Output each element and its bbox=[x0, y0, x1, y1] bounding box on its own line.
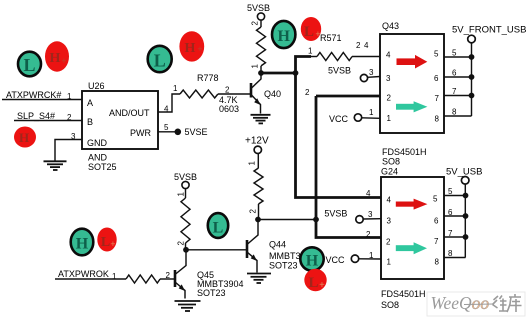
watermark box bbox=[427, 292, 525, 316]
wire Q43 pin 8 bbox=[444, 115, 472, 117]
wire Q24 pin 8 bbox=[444, 257, 466, 259]
svg-text:FDS4501H: FDS4501H bbox=[382, 147, 427, 157]
svg-text:L: L bbox=[101, 235, 110, 250]
svg-text:SO8: SO8 bbox=[381, 300, 399, 310]
svg-text:L: L bbox=[308, 275, 318, 291]
wire vertical bus down to Q24 pin 4 bbox=[296, 73, 382, 198]
svg-text:H: H bbox=[76, 236, 89, 253]
ground (U26 pin 3) bbox=[44, 161, 67, 170]
terminal 5VSB (Q43 pin 3) bbox=[360, 74, 367, 81]
svg-text:5: 5 bbox=[448, 187, 453, 196]
svg-text:0603: 0603 bbox=[219, 104, 239, 114]
svg-text:5VSB: 5VSB bbox=[324, 209, 347, 219]
svg-text:SLP_S4#: SLP_S4# bbox=[17, 111, 55, 121]
svg-text:L: L bbox=[154, 51, 166, 71]
svg-text:+: + bbox=[197, 44, 202, 54]
svg-text:+: + bbox=[110, 239, 115, 249]
svg-text:1: 1 bbox=[177, 192, 186, 197]
svg-text:6: 6 bbox=[452, 69, 457, 78]
wire 5VSB terminal to resistor bbox=[185, 188, 187, 198]
wire resistor to Q44 collector junction bbox=[258, 204, 260, 220]
wire U26 pin 3 to ground bbox=[55, 140, 82, 161]
indicator red L+ (bottom right) bbox=[304, 269, 326, 291]
teal arrow inside Q43 bbox=[396, 101, 427, 112]
indicator teal H (bottom left) bbox=[71, 229, 94, 256]
indicator red H (left) bbox=[14, 127, 36, 148]
svg-text:2: 2 bbox=[305, 88, 310, 97]
svg-text:+12V: +12V bbox=[245, 136, 269, 147]
svg-text:U26: U26 bbox=[88, 81, 105, 91]
wire R778 to Q40 base bbox=[218, 93, 250, 95]
indicator red H+ (above R778) bbox=[179, 31, 204, 61]
svg-text:+: + bbox=[319, 280, 325, 291]
wire SLP_S4# to U26 pin 2 bbox=[14, 120, 82, 122]
svg-text:GND: GND bbox=[87, 138, 108, 148]
svg-text:+: + bbox=[61, 56, 66, 66]
wire Q24 pin 6 bbox=[444, 215, 466, 217]
watermark Q tail line bbox=[464, 303, 494, 306]
svg-text:R571: R571 bbox=[320, 33, 342, 43]
indicator red L+ (bottom left) bbox=[97, 228, 116, 252]
resistor R778 bbox=[180, 90, 218, 98]
junction Q44 collector node bbox=[255, 217, 261, 223]
svg-text:5: 5 bbox=[434, 50, 439, 59]
junction Q24 pin7 bbox=[463, 234, 469, 240]
terminal 5V_FRONT_USB bbox=[468, 35, 476, 43]
wire vertical bus Q43 pin2 to Q24 pin2 bbox=[316, 96, 381, 238]
svg-text:3: 3 bbox=[368, 210, 373, 219]
svg-text:8: 8 bbox=[452, 108, 457, 117]
svg-text:5VSE: 5VSE bbox=[185, 127, 208, 137]
wire ATXPWROK to resistor bbox=[55, 278, 126, 280]
svg-text:3: 3 bbox=[369, 68, 374, 77]
svg-text:2: 2 bbox=[366, 230, 371, 239]
svg-text:1: 1 bbox=[308, 47, 313, 56]
terminal VCC (Q24 pin 1) bbox=[351, 255, 358, 262]
svg-text:B: B bbox=[87, 117, 93, 127]
svg-text:PWR: PWR bbox=[130, 128, 151, 138]
transistor Q40 bbox=[251, 73, 261, 114]
svg-text:4: 4 bbox=[366, 189, 371, 198]
ground (Q45 emitter) bbox=[175, 301, 201, 311]
svg-text:3: 3 bbox=[71, 132, 76, 141]
svg-text:SO8: SO8 bbox=[382, 157, 400, 167]
svg-text:1: 1 bbox=[387, 114, 392, 123]
junction Q43 pin6 bbox=[469, 74, 475, 80]
transistor Q45 bbox=[175, 250, 186, 299]
wire Q40 collector node to vertical bus bbox=[261, 72, 296, 75]
watermark CJK 维 bbox=[493, 296, 508, 312]
resistor (ATXPWROK to Q45 base) bbox=[126, 275, 160, 283]
svg-text:5V_FRONT_USB: 5V_FRONT_USB bbox=[452, 25, 526, 36]
teal arrow inside Q24 bbox=[396, 242, 427, 254]
junction Q45 collector node bbox=[183, 247, 189, 253]
svg-text:5VSB: 5VSB bbox=[247, 3, 270, 13]
svg-text:SOT23: SOT23 bbox=[269, 261, 298, 271]
IC Q24 FDS4501H body bbox=[381, 177, 444, 279]
svg-text:2: 2 bbox=[356, 41, 361, 50]
junction on Q43pin2 bus bbox=[313, 217, 319, 223]
wire Q24 pin 7 bbox=[444, 236, 466, 238]
wire R571 to Q43 pin 4 bbox=[352, 56, 380, 58]
ground (Q40 emitter) bbox=[251, 115, 271, 124]
wire ATXPWRCK# to U26 pin 1 bbox=[2, 99, 82, 101]
wire VCC terminal to Q43 pin 1 bbox=[362, 117, 380, 120]
indicator teal L (above U26) bbox=[148, 46, 172, 72]
svg-text:7: 7 bbox=[448, 229, 453, 238]
wire Q43 pin 5 bbox=[444, 56, 472, 58]
svg-text:2: 2 bbox=[251, 21, 260, 26]
svg-text:VCC: VCC bbox=[326, 255, 346, 265]
indicator teal H (bottom right) bbox=[300, 247, 323, 270]
svg-text:5VSB: 5VSB bbox=[174, 172, 197, 182]
svg-text:2: 2 bbox=[387, 94, 392, 103]
svg-text:8: 8 bbox=[448, 249, 453, 258]
svg-text:2: 2 bbox=[249, 209, 258, 214]
watermark CJK 库 bbox=[507, 294, 522, 312]
wire 5VSB terminal to Q24 pin 3 bbox=[363, 218, 381, 220]
junction Q43 pin7 bbox=[469, 93, 475, 99]
terminal 5VSB (Q24 pin 3) bbox=[356, 216, 363, 223]
svg-text:1: 1 bbox=[369, 108, 374, 117]
resistor (5VSB pull-up to Q40 collector) bbox=[257, 27, 266, 66]
svg-text:5: 5 bbox=[452, 49, 457, 58]
junction Q43 pin5 bbox=[469, 54, 475, 60]
resistor (5VSB to Q45 collector) bbox=[181, 198, 190, 243]
svg-text:G24: G24 bbox=[381, 167, 398, 177]
svg-text:H: H bbox=[306, 253, 319, 270]
svg-text:4: 4 bbox=[387, 195, 392, 204]
svg-text:2: 2 bbox=[67, 113, 72, 122]
svg-text:A: A bbox=[87, 98, 93, 108]
red arrow inside Q43 bbox=[397, 55, 428, 69]
svg-text:ATXPWRCK#: ATXPWRCK# bbox=[6, 90, 61, 100]
svg-text:1: 1 bbox=[387, 258, 392, 267]
red arrow inside Q24 bbox=[396, 199, 428, 210]
svg-text:6: 6 bbox=[448, 208, 453, 217]
U26 pin 5 wire PWR to 5VSE bbox=[158, 131, 178, 133]
svg-text:3: 3 bbox=[386, 74, 391, 83]
svg-text:AND/OUT: AND/OUT bbox=[109, 108, 150, 118]
svg-text:5: 5 bbox=[164, 123, 169, 132]
svg-text:H: H bbox=[185, 41, 196, 56]
wire Q43 pin 7 bbox=[444, 95, 472, 97]
wire vertical bus Q40-collector net bbox=[296, 57, 312, 74]
terminal 5VSB (top) bbox=[257, 13, 264, 20]
svg-text:H: H bbox=[277, 28, 290, 45]
node 5VSE dot bbox=[175, 129, 182, 136]
svg-text:1: 1 bbox=[67, 92, 72, 101]
svg-text:1: 1 bbox=[173, 84, 178, 93]
svg-text:WeeQoo: WeeQoo bbox=[431, 293, 490, 313]
svg-text:6: 6 bbox=[434, 74, 439, 83]
terminal 5VSB (left lower) bbox=[182, 181, 189, 188]
wire Q24 pin 5 bbox=[444, 195, 466, 197]
svg-text:VCC: VCC bbox=[329, 114, 349, 124]
svg-text:7: 7 bbox=[435, 94, 440, 103]
wire resistor to junction bbox=[260, 66, 262, 72]
svg-text:5: 5 bbox=[433, 195, 438, 204]
wire U26 pin 4 output to R778 bbox=[158, 94, 180, 112]
svg-text:H: H bbox=[19, 130, 29, 145]
svg-text:4: 4 bbox=[386, 51, 391, 60]
transistor Q44 bbox=[247, 220, 258, 273]
svg-text:SOT25: SOT25 bbox=[88, 162, 117, 172]
wire 5V_FRONT_USB rail bbox=[471, 43, 473, 116]
svg-text:Q44: Q44 bbox=[269, 240, 286, 250]
wire +12V terminal to resistor bbox=[257, 154, 259, 169]
indicator teal L (middle) bbox=[208, 213, 228, 238]
svg-text:R778: R778 bbox=[197, 73, 219, 83]
IC U26 AND gate body bbox=[82, 91, 158, 149]
terminal 5V_USB bbox=[461, 177, 469, 185]
svg-text:4: 4 bbox=[164, 105, 169, 114]
svg-text:L: L bbox=[304, 24, 314, 40]
svg-text:8: 8 bbox=[435, 257, 440, 266]
svg-text:H: H bbox=[50, 51, 61, 66]
junction Q24 pin5 bbox=[463, 193, 469, 199]
junction Q40 collector node bbox=[258, 70, 264, 76]
svg-text:8: 8 bbox=[435, 115, 440, 124]
ground (Q44 emitter) bbox=[247, 274, 271, 284]
svg-text:L: L bbox=[213, 220, 224, 237]
wire resistor to Q45 base bbox=[160, 278, 174, 280]
junction on vertical bus bbox=[293, 70, 299, 76]
wire Q43 pin 2 to vertical bus bbox=[316, 95, 380, 98]
svg-text:7: 7 bbox=[452, 87, 457, 96]
svg-text:1: 1 bbox=[248, 161, 257, 166]
junction Q24 pin6 bbox=[463, 213, 469, 219]
wire VCC terminal to Q24 pin 1 bbox=[359, 258, 381, 260]
wire resistor to Q45 collector junction bbox=[185, 243, 187, 250]
svg-text:Q40: Q40 bbox=[264, 89, 281, 99]
resistor R571 bbox=[311, 56, 317, 58]
wire Q45 collector node to Q44 base bbox=[186, 249, 246, 251]
indicator teal L (top left) bbox=[18, 52, 41, 77]
svg-text:7: 7 bbox=[434, 237, 439, 246]
IC Q43 FDS4501H body bbox=[380, 34, 444, 133]
wire Q44 collector node to bus bbox=[258, 219, 316, 221]
svg-text:2: 2 bbox=[225, 86, 230, 95]
svg-text:Q43: Q43 bbox=[382, 21, 399, 31]
svg-text:+: + bbox=[315, 29, 320, 39]
svg-text:1: 1 bbox=[251, 64, 260, 69]
svg-text:ATXPWROK: ATXPWROK bbox=[58, 269, 109, 279]
wire 5VSB terminal to resistor bbox=[260, 20, 262, 27]
terminal VCC (Q43 pin 1) bbox=[354, 114, 361, 121]
svg-text:2: 2 bbox=[386, 238, 391, 247]
svg-text:6: 6 bbox=[434, 216, 439, 225]
svg-text:4: 4 bbox=[364, 41, 369, 50]
resistor (+12V to Q44 collector) bbox=[254, 168, 263, 204]
wire 5V_USB rail bbox=[464, 184, 466, 257]
terminal +12V bbox=[254, 146, 261, 153]
svg-text:5VSB: 5VSB bbox=[328, 66, 351, 76]
svg-text:L: L bbox=[23, 55, 35, 75]
svg-text:SOT23: SOT23 bbox=[197, 288, 226, 298]
svg-text:AND: AND bbox=[88, 153, 108, 163]
svg-text:2: 2 bbox=[177, 241, 186, 246]
indicator teal H (top middle) bbox=[272, 21, 295, 48]
svg-text:1: 1 bbox=[369, 251, 374, 260]
svg-text:FDS4501H: FDS4501H bbox=[381, 289, 426, 299]
indicator red H+ (top left) bbox=[45, 41, 69, 71]
wire Q43 pin 6 bbox=[444, 76, 472, 78]
svg-text:3: 3 bbox=[387, 216, 392, 225]
wire 5VSB terminal to Q43 pin 3 bbox=[368, 76, 381, 79]
indicator red L+ (top middle) bbox=[301, 17, 321, 41]
